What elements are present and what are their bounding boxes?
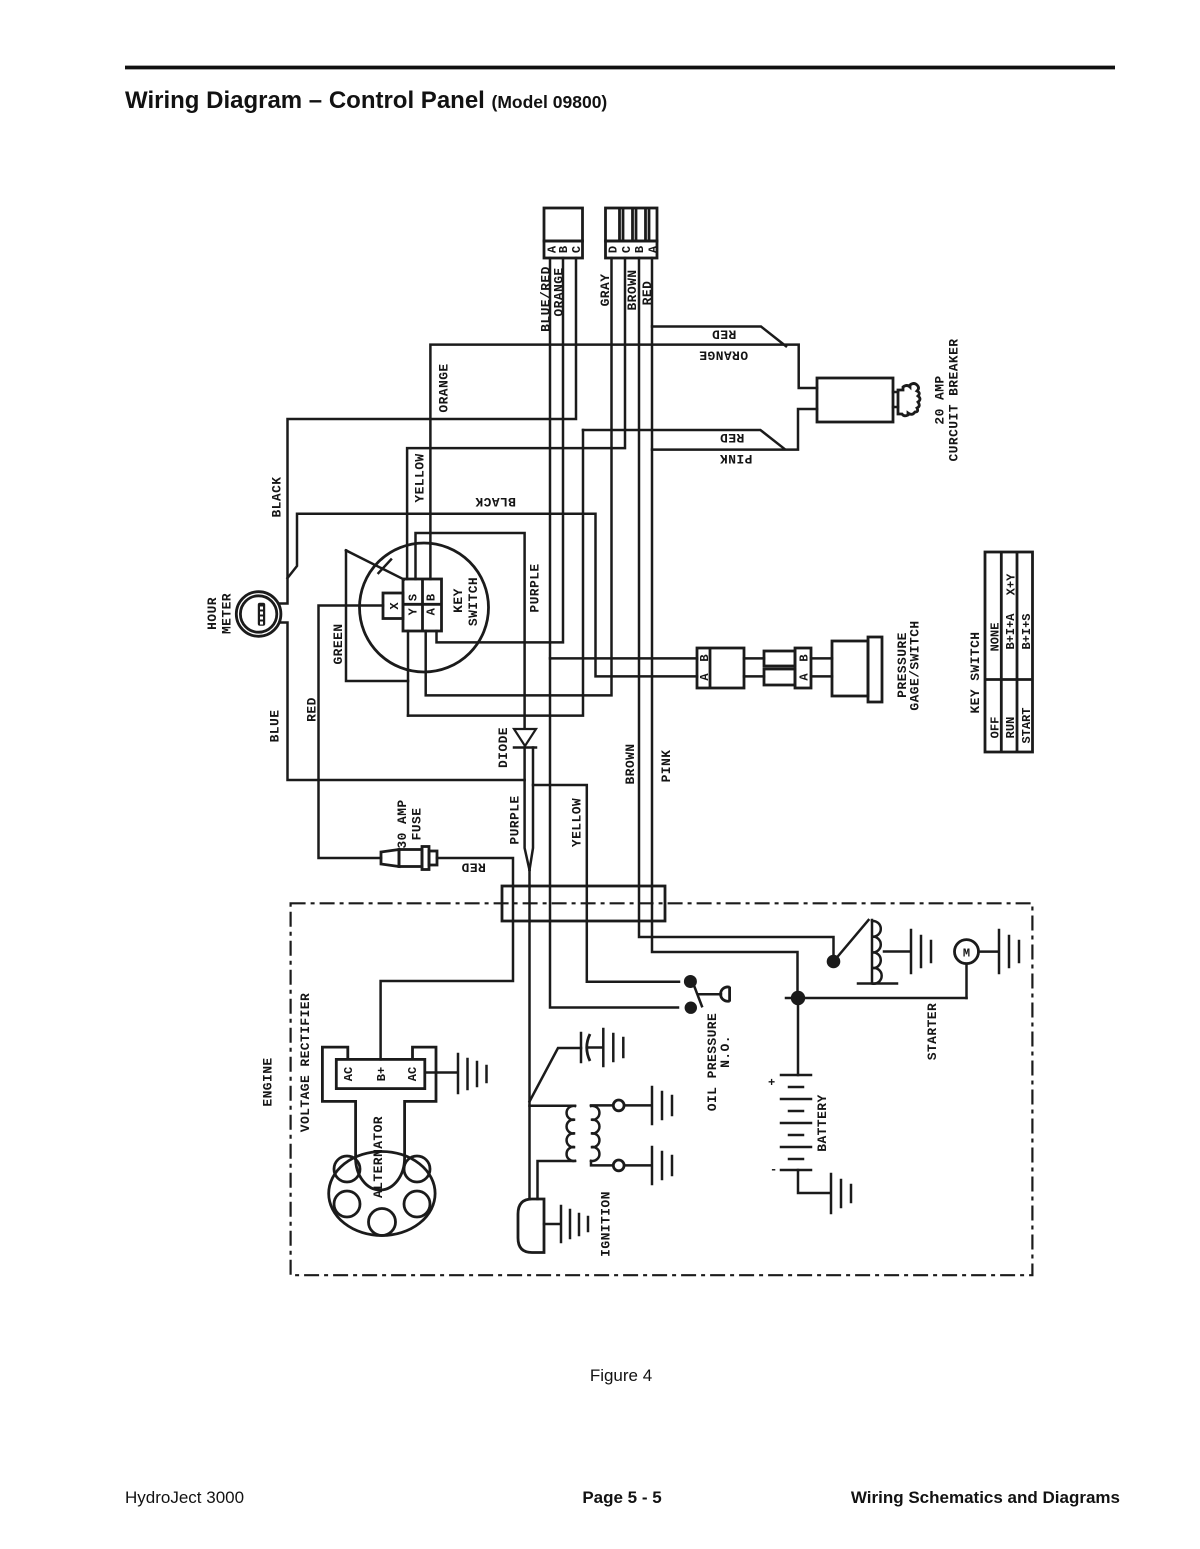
battery junction node (786, 991, 967, 1075)
svg-text:DIODE: DIODE (496, 727, 511, 768)
svg-text:A: A (698, 673, 712, 681)
wire black: hour meter to connector J1 pin C (280, 258, 577, 604)
svg-text:A: A (647, 245, 661, 253)
ground G5 (ignition) (561, 1206, 588, 1242)
svg-text:YELLOW: YELLOW (413, 453, 428, 502)
svg-text:B+: B+ (375, 1067, 389, 1081)
ignition capacitor C1 (530, 1033, 603, 1102)
wire purple single to ignition (528, 870, 531, 1199)
svg-text:B+I+S: B+I+S (1020, 613, 1034, 649)
svg-text:B: B (557, 246, 571, 253)
svg-text:ENGINE: ENGINE (261, 1057, 276, 1106)
svg-text:BROWN: BROWN (623, 743, 638, 784)
svg-text:RED: RED (712, 327, 737, 342)
svg-text:AC: AC (342, 1067, 356, 1081)
ground G6 (battery) (831, 1174, 851, 1213)
svg-text:S: S (407, 594, 421, 601)
svg-text:ORANGE: ORANGE (699, 348, 748, 363)
engine box dash-dot border (291, 903, 1033, 1275)
alternator G (329, 1152, 435, 1236)
wire red-583: channel down to y-term line (408, 430, 583, 716)
voltage rectifier VR1 (322, 1047, 457, 1158)
svg-text:GAGE/SWITCH: GAGE/SWITCH (908, 620, 923, 710)
svg-text:RED: RED (461, 860, 486, 875)
svg-text:Figure 4: Figure 4 (590, 1366, 652, 1385)
svg-text:-: - (770, 1163, 777, 1177)
ground G1 (rectifier) (458, 1054, 487, 1093)
wire red: key switch X to fuse to rectifier B+ (319, 606, 384, 859)
svg-text:HydroJect 3000: HydroJect 3000 (125, 1488, 244, 1507)
svg-text:Wiring Diagram – Control Panel: Wiring Diagram – Control Panel (Model 09… (125, 87, 607, 114)
wire purple pair taper below diode (525, 748, 530, 871)
svg-text:C: C (570, 246, 584, 253)
svg-text:RED: RED (305, 697, 320, 722)
svg-text:PURPLE: PURPLE (528, 563, 543, 612)
svg-text:AC: AC (406, 1067, 420, 1081)
wire brown: J2-B down to starter solenoid arm (639, 258, 834, 956)
wire black-2: meter riser to pressure gage connector A (288, 514, 698, 677)
svg-text:PURPLE: PURPLE (508, 795, 523, 844)
key switch lever (346, 550, 404, 579)
svg-text:ORANGE: ORANGE (437, 363, 452, 412)
svg-text:Wiring Schematics and Diagrams: Wiring Schematics and Diagrams (851, 1488, 1120, 1507)
svg-text:NONE: NONE (989, 623, 1003, 652)
svg-text:D: D (607, 246, 621, 253)
ground G8 (starter) (999, 930, 1019, 973)
svg-text:CURCUIT BREAKER: CURCUIT BREAKER (947, 338, 962, 461)
wire blue/red: J1-A down to oil pressure lower contact (550, 258, 678, 1008)
svg-text:B+I+A: B+I+A (1004, 613, 1018, 650)
svg-text:HOUR: HOUR (205, 597, 220, 630)
wire gray: J2-D to key switch terminal A2 (426, 258, 612, 695)
ground G2 (capacitor) (603, 1029, 623, 1066)
svg-text:Page 5 - 5: Page 5 - 5 (582, 1488, 661, 1507)
key switch table (985, 552, 1034, 752)
svg-text:FUSE: FUSE (410, 808, 425, 841)
starter motor M (955, 940, 999, 998)
wire orange-b: J1-B to key switch terminal A (437, 258, 564, 642)
starter solenoid (827, 920, 910, 984)
harness pass-through (502, 886, 665, 921)
ground G3 (coil upper) (652, 1087, 672, 1124)
svg-text:X+Y: X+Y (1005, 573, 1019, 595)
svg-text:RUN: RUN (1004, 717, 1018, 739)
svg-text:N.O.: N.O. (718, 1035, 733, 1068)
wire purple: key switch S-top to diode (416, 533, 525, 729)
svg-text:PINK: PINK (720, 451, 753, 466)
wire green (346, 550, 408, 681)
key switch S1 (360, 543, 489, 672)
svg-text:SWITCH: SWITCH (466, 577, 481, 626)
svg-text:YELLOW: YELLOW (570, 798, 585, 847)
svg-text:B: B (698, 654, 712, 661)
top rule (125, 66, 1115, 70)
oil pressure switch contacts (684, 975, 730, 1014)
wire orange channel: to circuit breaker top (430, 345, 817, 579)
connector J1 (3-pin A B C) (544, 208, 584, 258)
wire blue: hour meter to purple junction (280, 623, 525, 781)
svg-text:30 AMP: 30 AMP (395, 799, 410, 848)
wire red channel top (652, 327, 786, 347)
svg-text:IGNITION: IGNITION (599, 1191, 614, 1257)
diode D1 (514, 729, 536, 748)
svg-text:START: START (1020, 707, 1034, 743)
svg-text:RED: RED (720, 430, 745, 445)
svg-text:GREEN: GREEN (331, 623, 346, 664)
wire red/pink: J2-A down, to solenoid junction (652, 258, 798, 992)
svg-text:STARTER: STARTER (925, 1003, 940, 1060)
ground G7 (solenoid) (911, 930, 931, 973)
wire pink channel: to circuit breaker bottom (652, 409, 817, 450)
svg-text:KEY SWITCH: KEY SWITCH (968, 631, 983, 713)
svg-text:B: B (425, 594, 439, 601)
svg-text:KEY: KEY (451, 588, 466, 613)
svg-text:ALTERNATOR: ALTERNATOR (371, 1116, 386, 1198)
svg-text:METER: METER (220, 593, 235, 634)
fuse F1 30 AMP (381, 847, 437, 870)
svg-text:Y: Y (407, 607, 421, 615)
svg-text:X: X (388, 602, 402, 610)
svg-text:20 AMP: 20 AMP (933, 375, 948, 424)
svg-text:A: A (425, 607, 439, 615)
ignition coil T1 (530, 1100, 652, 1199)
wire branch: to pressure gage connector B (550, 657, 697, 660)
svg-text:B: B (798, 654, 812, 661)
pressure gage/switch connector (697, 648, 832, 688)
ground G4 (coil lower) (652, 1147, 672, 1184)
hour meter M1 (236, 592, 281, 637)
ignition module (518, 1199, 560, 1253)
svg-text:BATTERY: BATTERY (815, 1094, 830, 1151)
svg-text:B: B (633, 246, 647, 253)
wire yellow: J2-C to key switch terminal S (407, 258, 625, 579)
svg-text:+: + (768, 1076, 775, 1090)
battery BT1 (781, 1075, 830, 1193)
pressure switch body (832, 637, 882, 702)
connector J2 (4-pin D C B A) (606, 208, 661, 258)
svg-text:M: M (963, 946, 970, 960)
circuit breaker CB1 (817, 378, 920, 422)
svg-text:PINK: PINK (659, 750, 674, 783)
wire key switch Y terminal down (407, 631, 410, 716)
svg-text:VOLTAGE RECTIFIER: VOLTAGE RECTIFIER (298, 993, 313, 1132)
svg-text:C: C (620, 246, 634, 253)
svg-text:A: A (798, 673, 812, 681)
svg-text:OFF: OFF (989, 717, 1003, 739)
wire yellow lower: purple tap to oil pressure upper contact (533, 785, 679, 982)
svg-text:BLACK: BLACK (475, 494, 516, 509)
svg-text:BLACK: BLACK (270, 476, 285, 517)
svg-text:BLUE: BLUE (268, 710, 283, 743)
wire red lower channel diagonal (583, 430, 785, 449)
